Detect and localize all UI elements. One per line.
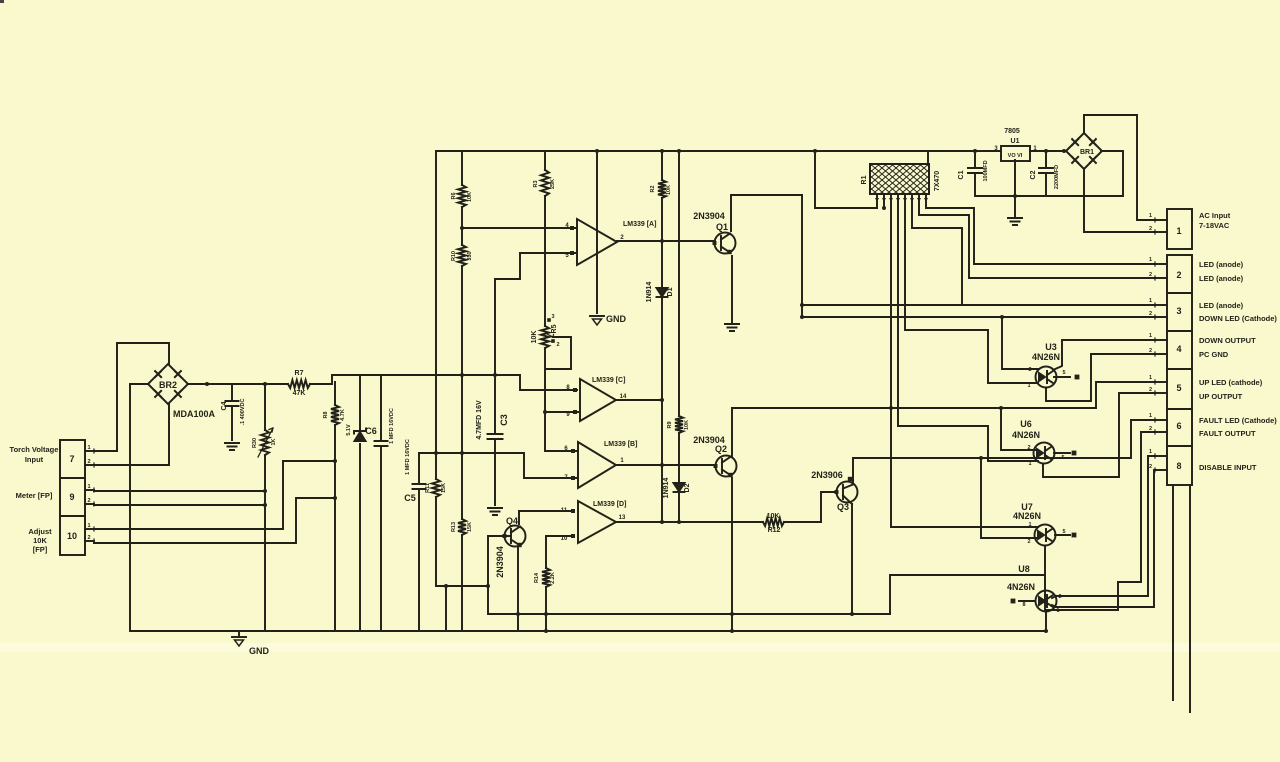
svg-text:LED (anode): LED (anode) [1199, 301, 1244, 310]
svg-text:1: 1 [1149, 257, 1152, 263]
svg-text:4.7MFD 16V: 4.7MFD 16V [476, 400, 483, 440]
svg-text:LED (anode): LED (anode) [1199, 260, 1244, 269]
svg-text:D2: D2 [684, 483, 691, 492]
svg-text:C4: C4 [221, 401, 228, 410]
svg-text:25K: 25K [550, 179, 556, 189]
svg-text:[FP]: [FP] [33, 545, 48, 554]
svg-text:BR2: BR2 [159, 380, 177, 390]
svg-text:Q2: Q2 [715, 444, 727, 454]
svg-text:4: 4 [1176, 344, 1181, 354]
svg-text:1N914: 1N914 [646, 282, 653, 303]
svg-text:10K: 10K [531, 331, 538, 344]
svg-text:350: 350 [467, 251, 473, 260]
svg-text:2: 2 [1027, 539, 1030, 545]
svg-text:10K: 10K [666, 185, 672, 195]
svg-text:1N914: 1N914 [663, 478, 670, 499]
svg-text:GND: GND [249, 646, 270, 656]
svg-text:11: 11 [561, 508, 568, 514]
svg-text:LED (anode): LED (anode) [1199, 274, 1244, 283]
svg-text:R5: R5 [551, 324, 558, 333]
svg-text:100MFD: 100MFD [983, 160, 989, 181]
svg-text:15K: 15K [441, 483, 447, 493]
svg-text:1: 1 [1149, 333, 1152, 339]
svg-text:47K: 47K [293, 390, 306, 397]
svg-text:2.2K: 2.2K [550, 572, 556, 584]
svg-text:2: 2 [87, 535, 90, 541]
svg-text:2: 2 [1028, 367, 1031, 373]
svg-text:1: 1 [1056, 608, 1059, 614]
svg-text:1: 1 [1028, 522, 1031, 528]
svg-text:R2: R2 [650, 185, 656, 192]
svg-text:VO VI: VO VI [1008, 153, 1023, 159]
svg-text:R9: R9 [667, 421, 673, 428]
svg-text:U8: U8 [1018, 564, 1030, 574]
svg-text:R1: R1 [861, 175, 868, 184]
svg-text:2: 2 [1149, 226, 1152, 232]
svg-text:MDA100A: MDA100A [173, 409, 216, 419]
svg-text:LM339 [C]: LM339 [C] [592, 377, 625, 384]
svg-text:5: 5 [1062, 529, 1065, 535]
svg-text:2: 2 [1149, 387, 1152, 393]
svg-text:2: 2 [1149, 464, 1152, 470]
svg-text:3: 3 [1176, 306, 1181, 316]
svg-text:R10: R10 [451, 251, 457, 261]
svg-text:2: 2 [1058, 594, 1061, 600]
svg-text:4N26N: 4N26N [1013, 511, 1041, 521]
svg-text:1: 1 [87, 445, 90, 451]
svg-text:10K: 10K [684, 420, 690, 430]
svg-text:2200MFD: 2200MFD [1054, 165, 1060, 189]
svg-text:9: 9 [69, 492, 74, 502]
svg-text:10: 10 [561, 536, 568, 542]
svg-text:5: 5 [1062, 370, 1065, 376]
svg-text:AC Input: AC Input [1199, 211, 1231, 220]
svg-text:U3: U3 [1045, 342, 1057, 352]
svg-text:Torch Voltage: Torch Voltage [10, 445, 59, 454]
svg-text:1: 1 [1149, 213, 1152, 219]
svg-text:5: 5 [1176, 383, 1181, 393]
svg-text:R7: R7 [295, 370, 304, 377]
svg-text:7805: 7805 [1004, 128, 1020, 135]
svg-text:Meter [FP]: Meter [FP] [16, 491, 53, 500]
svg-text:FAULT LED (Cathode): FAULT LED (Cathode) [1199, 416, 1277, 425]
svg-text:3: 3 [551, 314, 554, 320]
svg-text:4N26N: 4N26N [1007, 582, 1035, 592]
svg-text:U1: U1 [1011, 138, 1020, 145]
svg-text:10K: 10K [33, 536, 47, 545]
svg-text:Q3: Q3 [837, 502, 849, 512]
svg-text:14: 14 [620, 394, 627, 400]
svg-text:15K: 15K [467, 522, 473, 532]
svg-text:1: 1 [1149, 413, 1152, 419]
svg-text:Q4: Q4 [506, 516, 518, 526]
svg-text:LM339 [D]: LM339 [D] [593, 501, 626, 508]
svg-text:1 MFD 16VDC: 1 MFD 16VDC [389, 408, 395, 444]
svg-text:2: 2 [1176, 270, 1181, 280]
svg-text:R12: R12 [768, 527, 781, 534]
svg-text:Q1: Q1 [716, 222, 728, 232]
svg-text:2N3904: 2N3904 [693, 211, 725, 221]
svg-text:6: 6 [1176, 421, 1181, 431]
svg-text:8: 8 [1176, 461, 1181, 471]
svg-text:R11: R11 [425, 483, 431, 493]
svg-text:1: 1 [1028, 461, 1031, 467]
svg-text:Adjust: Adjust [28, 527, 52, 536]
svg-text:4N26N: 4N26N [1032, 352, 1060, 362]
svg-text:DISABLE INPUT: DISABLE INPUT [1199, 463, 1257, 472]
svg-text:C3: C3 [499, 414, 509, 426]
svg-text:LM339 [A]: LM339 [A] [623, 221, 656, 228]
svg-text:C5: C5 [404, 493, 416, 503]
svg-text:C2: C2 [1030, 170, 1037, 179]
svg-text:7: 7 [69, 454, 74, 464]
svg-text:DOWN OUTPUT: DOWN OUTPUT [1199, 336, 1256, 345]
svg-text:5: 5 [1061, 455, 1064, 461]
svg-text:13: 13 [619, 515, 626, 521]
svg-text:LM339 [B]: LM339 [B] [604, 441, 637, 448]
svg-text:DOWN LED (Cathode): DOWN LED (Cathode) [1199, 314, 1277, 323]
svg-text:2N3906: 2N3906 [811, 470, 843, 480]
svg-text:1K: 1K [271, 438, 277, 445]
svg-text:2N3904: 2N3904 [495, 546, 505, 578]
svg-text:1 MFD 16VDC: 1 MFD 16VDC [405, 439, 411, 475]
svg-text:R14: R14 [534, 572, 540, 583]
svg-text:2: 2 [87, 459, 90, 465]
svg-text:R30: R30 [252, 438, 258, 448]
svg-text:1: 1 [1027, 383, 1030, 389]
svg-text:4.7K: 4.7K [340, 409, 346, 421]
svg-text:1: 1 [1149, 298, 1152, 304]
svg-text:FAULT OUTPUT: FAULT OUTPUT [1199, 429, 1256, 438]
svg-text:R8: R8 [323, 411, 329, 418]
svg-text:2: 2 [87, 498, 90, 504]
svg-text:1: 1 [87, 484, 90, 490]
svg-text:7-18VAC: 7-18VAC [1199, 221, 1230, 230]
svg-text:1: 1 [1149, 375, 1152, 381]
svg-text:U6: U6 [1020, 419, 1032, 429]
svg-text:.1 400VDC: .1 400VDC [240, 399, 246, 426]
svg-text:10K: 10K [467, 192, 473, 202]
svg-text:10: 10 [67, 531, 77, 541]
svg-text:2: 2 [1149, 311, 1152, 317]
svg-text:8: 8 [1022, 602, 1025, 608]
svg-text:D1: D1 [667, 287, 674, 296]
svg-text:C6: C6 [365, 426, 377, 436]
svg-text:4N26N: 4N26N [1012, 430, 1040, 440]
svg-text:2: 2 [1149, 348, 1152, 354]
svg-text:BR1: BR1 [1080, 149, 1094, 156]
svg-text:2: 2 [1149, 272, 1152, 278]
svg-text:2: 2 [556, 342, 559, 348]
svg-text:C1: C1 [958, 170, 965, 179]
svg-text:1: 1 [1176, 226, 1181, 236]
svg-text:UP OUTPUT: UP OUTPUT [1199, 392, 1243, 401]
svg-text:5.1V: 5.1V [346, 424, 352, 436]
svg-text:2: 2 [1149, 426, 1152, 432]
svg-text:10K: 10K [767, 513, 780, 520]
svg-text:PC GND: PC GND [1199, 350, 1229, 359]
svg-text:7X470: 7X470 [934, 171, 941, 191]
svg-text:R3: R3 [533, 180, 539, 187]
svg-text:1: 1 [87, 523, 90, 529]
svg-text:UP LED (cathode): UP LED (cathode) [1199, 378, 1263, 387]
svg-text:R6: R6 [451, 192, 457, 199]
svg-text:2: 2 [1027, 445, 1030, 451]
svg-text:GND: GND [606, 314, 627, 324]
svg-text:R13: R13 [451, 522, 457, 532]
svg-text:1: 1 [1149, 449, 1152, 455]
svg-text:Input: Input [25, 455, 44, 464]
